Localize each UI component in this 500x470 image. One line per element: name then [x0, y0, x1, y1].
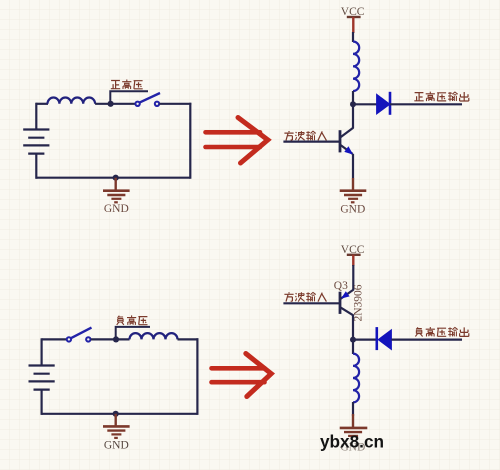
svg-text:GND: GND	[340, 204, 365, 216]
wire right vertical	[189, 103, 191, 179]
ground G4	[340, 414, 368, 436]
label 正高压输出	[414, 92, 469, 102]
inductor L3 (horizontal, 4 humps)	[130, 333, 178, 339]
label 方波输入	[284, 292, 326, 301]
transistor Q3 (PNP)	[340, 290, 354, 316]
svg-text:GND: GND	[104, 440, 129, 452]
node E (bottom junction)	[113, 411, 119, 417]
wire inductor to ground	[352, 402, 354, 416]
battery BT1	[23, 130, 49, 154]
wire node to diode	[353, 103, 377, 105]
label stub 正高压	[110, 91, 148, 104]
diode D2 (pointing left)	[377, 327, 392, 350]
svg-text:ybx8.cn: ybx8.cn	[320, 432, 384, 452]
wire left vertical lower	[35, 154, 37, 179]
node D (junction to label)	[113, 336, 119, 342]
wire bottom	[36, 177, 190, 179]
wire collector to node	[352, 315, 354, 341]
ground G2	[340, 178, 367, 202]
VCC stub	[352, 255, 354, 266]
diode D1	[377, 92, 390, 115]
node B (bottom junction)	[113, 175, 119, 181]
svg-text:2N3906: 2N3906	[353, 284, 365, 321]
switch S1	[135, 93, 160, 106]
label stub 负高压	[116, 327, 150, 340]
VCC stub	[352, 17, 354, 33]
wire node to inductor	[352, 340, 354, 354]
wire top segment middle	[95, 103, 135, 105]
wire base input	[283, 141, 340, 143]
wire diode to output	[391, 339, 462, 341]
node A (junction to label)	[108, 101, 114, 107]
wire node to diode	[353, 339, 377, 341]
wire base input	[283, 302, 340, 304]
wire vcc to inductor	[352, 32, 354, 42]
wire vcc to emitter	[352, 265, 354, 290]
label 负高压	[117, 315, 148, 325]
wire inductor to node	[352, 91, 354, 105]
transistor Q1 (NPN)	[340, 128, 353, 155]
node F (collector/diode junction)	[350, 337, 356, 343]
svg-text:Q3: Q3	[334, 280, 348, 292]
label 方波输入	[284, 131, 326, 140]
wire left vertical upper	[40, 338, 42, 365]
svg-text:GND: GND	[104, 203, 129, 215]
switch S2	[67, 328, 92, 342]
wire left vertical lower	[40, 390, 42, 415]
inductor L2 (vertical, 4 humps)	[353, 42, 359, 92]
wire left vertical upper	[35, 103, 37, 130]
ground G3	[103, 414, 130, 438]
node C (collector/diode junction)	[350, 101, 356, 107]
wire diode to output	[390, 103, 462, 105]
label 正高压	[111, 80, 143, 90]
wire node to collector	[352, 104, 354, 128]
battery BT2	[29, 366, 55, 390]
wire bottom	[42, 413, 198, 415]
wire top segment left	[36, 103, 48, 105]
VCC bar	[347, 254, 361, 256]
inductor L4 (vertical, 4 humps)	[353, 354, 359, 403]
wire top segment right	[178, 338, 199, 340]
label 负高压输出	[415, 327, 468, 337]
wire top segment left	[42, 338, 67, 340]
wire top segment right	[159, 103, 191, 105]
wire emitter down	[352, 154, 354, 179]
wire right vertical	[196, 338, 198, 415]
VCC bar	[347, 16, 361, 18]
wire top segment middle	[91, 338, 130, 340]
inductor L1 (horizontal, 4 humps)	[48, 98, 96, 104]
ground G1	[103, 178, 130, 203]
